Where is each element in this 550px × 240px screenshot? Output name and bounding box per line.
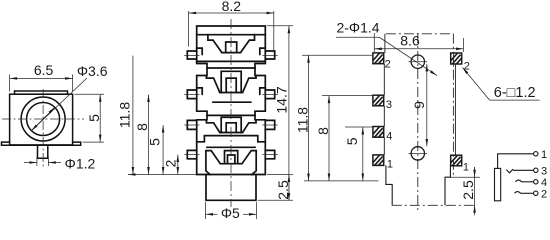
- terminal 1 circle: [534, 152, 538, 156]
- dim phi5: [206, 202, 257, 219]
- dim 2.5 right view: [450, 176, 480, 178]
- dim 5 mid: [162, 125, 164, 175]
- svg-text:1: 1: [463, 162, 469, 174]
- mid side steps S1: [197, 48, 266, 54]
- mid seam S4: [207, 146, 255, 148]
- left view body: [10, 94, 73, 145]
- dim 2 mid: [177, 155, 179, 175]
- footprint bottom step left: [386, 165, 392, 205]
- left view top lip: [15, 91, 68, 94]
- left view flange: [2, 142, 81, 145]
- left view inner circle: [27, 103, 60, 136]
- dim 8.2: [189, 11, 274, 50]
- svg-text:5: 5: [147, 138, 163, 146]
- dim 2-phi1.4 leader: [336, 37, 437, 75]
- svg-text:5: 5: [86, 114, 102, 122]
- footprint hole top: [411, 55, 424, 68]
- svg-text:1: 1: [387, 158, 393, 170]
- mid inner tab S3: [226, 123, 236, 133]
- mid cup 4: [206, 151, 256, 175]
- mid pin L2: [187, 90, 196, 99]
- svg-text:11.8: 11.8: [117, 102, 133, 128]
- dim phi1.2: [37, 157, 49, 167]
- pad L4: [373, 127, 384, 138]
- footprint hole bottom: [411, 147, 424, 160]
- mid outer tab S4: [225, 151, 238, 164]
- contact 2 hump: [515, 192, 521, 194]
- svg-text:5: 5: [344, 137, 360, 145]
- mid bottom plate S3: [197, 136, 266, 142]
- svg-text:2: 2: [162, 159, 178, 167]
- footprint bottom step right: [445, 166, 450, 206]
- left view vertical centerline: [42, 89, 44, 168]
- mid outer tab S2: [221, 71, 241, 92]
- mid pin R1: [265, 51, 274, 59]
- mid inner tab S2: [226, 78, 236, 92]
- mid inner tab S4: [228, 155, 235, 164]
- mid pin R2: [265, 90, 274, 99]
- contact 3 tick: [506, 169, 513, 173]
- terminal 4 circle: [534, 180, 538, 184]
- pad L2: [373, 53, 384, 64]
- footprint outline dash-dot: [386, 34, 477, 206]
- svg-text:3: 3: [386, 99, 392, 111]
- mid pin L1: [187, 51, 196, 59]
- plug body: [495, 168, 501, 200]
- dim 9: [426, 64, 428, 146]
- dim 6-sq1.2 leader: [463, 68, 540, 101]
- left view horizontal centerline: [2, 118, 84, 120]
- svg-text:8: 8: [134, 123, 150, 131]
- mid pin L3: [187, 120, 196, 129]
- dim 6.5: [10, 75, 73, 92]
- svg-text:4: 4: [386, 131, 392, 143]
- mid seam S1: [197, 34, 266, 36]
- mid vertical centerline: [230, 19, 232, 207]
- left view bottom pin: [38, 145, 48, 158]
- mid cup 2: [206, 76, 256, 93]
- dim 8 right view: [322, 95, 373, 97]
- dim 11.8 mid: [128, 56, 196, 175]
- mid pin L4: [187, 150, 196, 158]
- svg-text:3: 3: [541, 165, 547, 177]
- svg-text:9: 9: [411, 101, 427, 109]
- svg-text:4: 4: [541, 177, 547, 189]
- dim phi3.6 leader: [31, 78, 87, 131]
- svg-text:2.5: 2.5: [460, 180, 476, 200]
- pad column connector left: [383, 34, 386, 155]
- dim 14.7: [258, 26, 293, 201]
- mid outer tab S3: [221, 117, 241, 132]
- mid seam S3: [207, 114, 255, 116]
- terminal 2 circle: [534, 191, 538, 195]
- svg-text:8: 8: [315, 127, 331, 135]
- dim 5 left view: [75, 94, 105, 142]
- footprint vertical centerline: [417, 33, 419, 210]
- mid cup 1: [208, 35, 255, 53]
- mid barrel: [206, 175, 256, 201]
- svg-text:1: 1: [541, 149, 547, 161]
- pad column connector right: [454, 64, 456, 155]
- svg-text:Φ5: Φ5: [221, 205, 240, 221]
- terminal 3 circle: [534, 168, 538, 172]
- svg-text:Φ1.2: Φ1.2: [65, 155, 96, 171]
- hole crosshairs: [409, 62, 428, 154]
- dim 11.8 right view: [302, 55, 378, 181]
- left view outer circle: [21, 97, 65, 141]
- svg-text:2: 2: [385, 58, 391, 70]
- dim 8 mid: [148, 95, 150, 175]
- mid S1 bottom plate: [197, 60, 266, 62]
- mid pin tick lines: [184, 56, 199, 155]
- dim 5 right view: [345, 126, 373, 128]
- svg-text:6-□1.2: 6-□1.2: [494, 85, 536, 101]
- wire terminal 2: [521, 192, 534, 194]
- wire terminal 1: [498, 154, 534, 169]
- svg-text:2: 2: [541, 188, 547, 200]
- dim 8.6: [374, 33, 463, 52]
- svg-text:Φ3.6: Φ3.6: [77, 63, 108, 79]
- svg-text:2.5: 2.5: [275, 180, 291, 200]
- pad L3: [373, 95, 384, 106]
- contact 4 hump: [516, 180, 522, 182]
- pads: [373, 53, 462, 166]
- mid pin R3: [265, 120, 274, 129]
- svg-text:14.7: 14.7: [274, 86, 290, 113]
- svg-text:6.5: 6.5: [34, 62, 54, 78]
- mid seam S2: [207, 67, 255, 69]
- svg-text:8.6: 8.6: [400, 33, 420, 49]
- svg-text:2-Φ1.4: 2-Φ1.4: [336, 20, 379, 36]
- svg-text:8.2: 8.2: [222, 0, 242, 14]
- pad R2: [451, 53, 462, 64]
- mid cup 3: [206, 120, 256, 133]
- wire terminal 3: [513, 169, 534, 171]
- pad L1: [373, 155, 384, 166]
- mid bar under cup2: [213, 101, 251, 103]
- mid pin R4: [265, 150, 274, 158]
- dim 2.5 mid: [288, 175, 290, 201]
- mid side steps S2: [197, 88, 266, 94]
- mid body outline: [197, 26, 266, 175]
- wire terminal 4: [522, 181, 534, 183]
- svg-text:11.8: 11.8: [295, 107, 311, 133]
- pad R1: [451, 155, 462, 166]
